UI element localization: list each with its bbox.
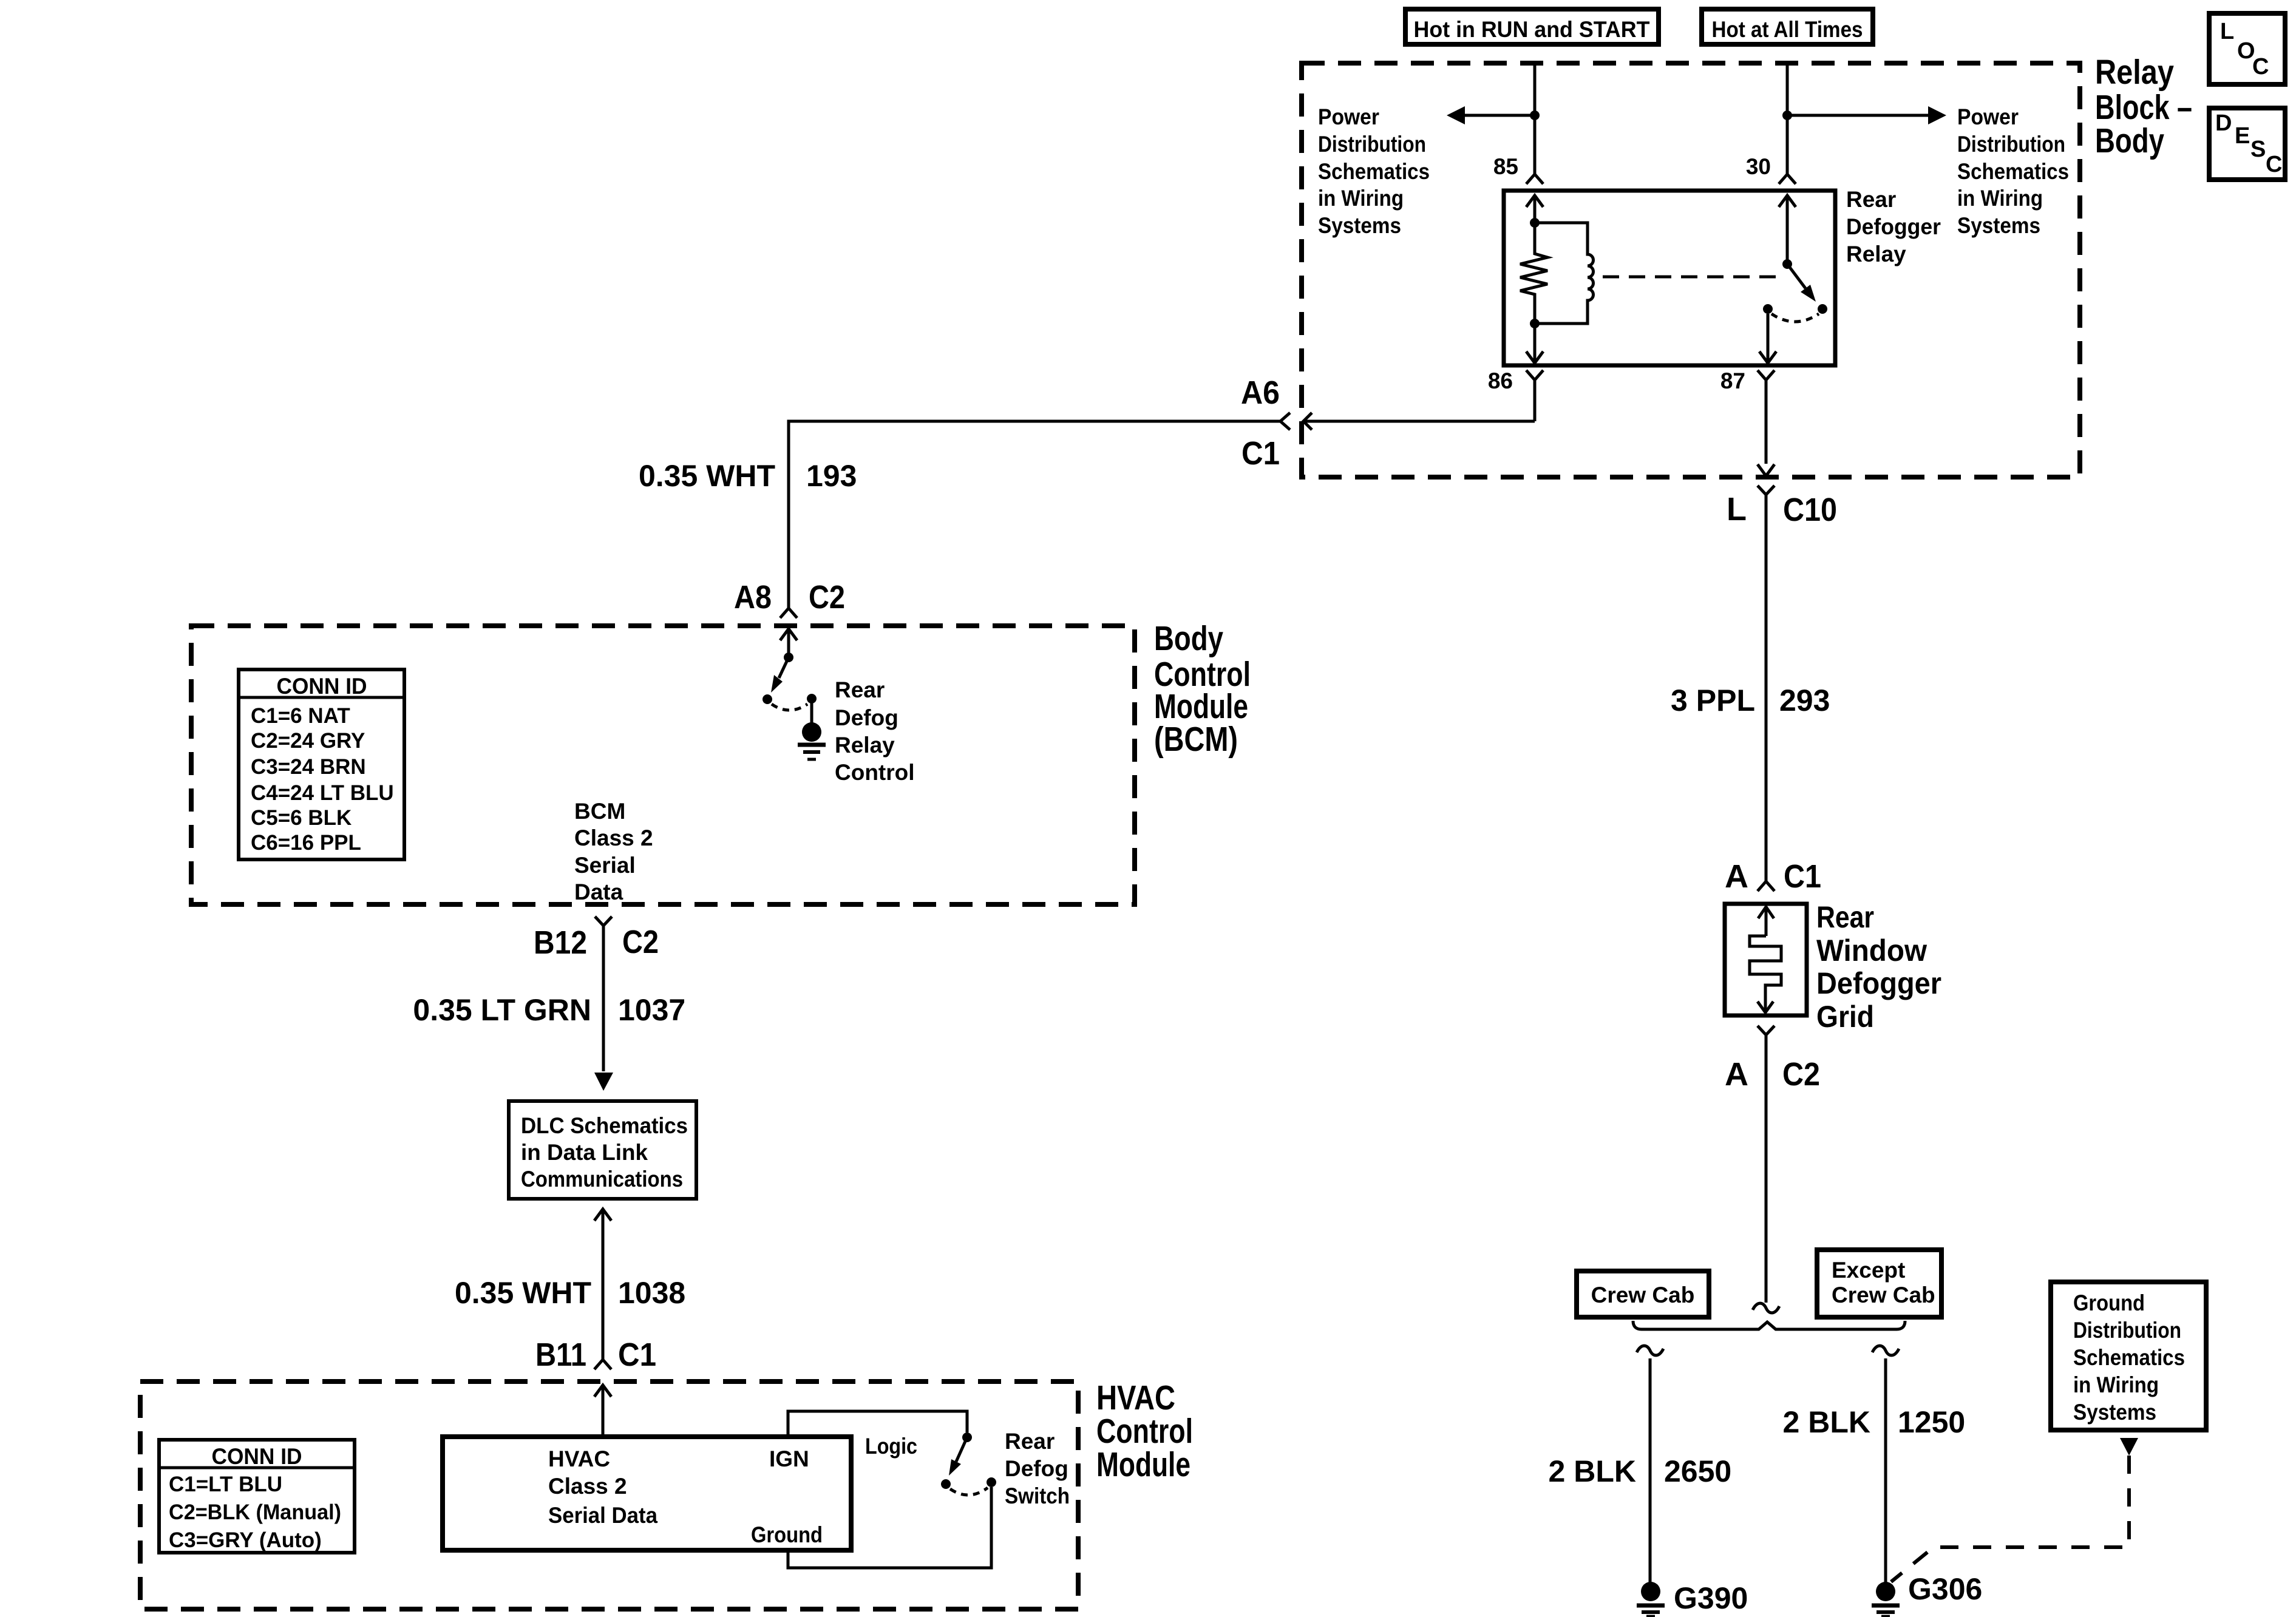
svg-text:0.35 WHT: 0.35 WHT	[455, 1276, 591, 1310]
wire to right power distribution	[1787, 114, 1939, 117]
svg-text:C2: C2	[809, 579, 845, 615]
logic wire to rear defog switch	[788, 1411, 967, 1437]
svg-text:Systems: Systems	[1318, 213, 1401, 238]
wire to G306 (circuit 1250)	[1884, 1358, 1887, 1583]
svg-text:87: 87	[1720, 368, 1745, 393]
wire break squiggle at splice	[1753, 1303, 1779, 1313]
wire to left power distribution	[1454, 114, 1535, 117]
wire from Hot at All Times to pin 30	[1786, 63, 1789, 174]
svg-text:Defogger: Defogger	[1816, 966, 1941, 1000]
DLC Schematics box	[509, 1101, 696, 1199]
svg-text:Power: Power	[1957, 104, 2019, 129]
svg-text:Module: Module	[1096, 1445, 1190, 1484]
option split brace	[1633, 1321, 1905, 1329]
CONN ID table (BCM)	[239, 670, 404, 859]
arrow up into DLC from HVAC wire 1038	[594, 1209, 611, 1360]
svg-text:C: C	[2252, 54, 2269, 80]
svg-text:C2: C2	[622, 924, 659, 960]
svg-text:C2=24 GRY: C2=24 GRY	[251, 729, 365, 753]
svg-text:IGN: IGN	[769, 1446, 809, 1471]
svg-text:Hot at All Times: Hot at All Times	[1712, 17, 1863, 42]
connector half (male) A/C2 and wire to splice	[1758, 1026, 1775, 1303]
Ground Distribution Schematics box	[2051, 1282, 2206, 1430]
svg-text:G306: G306	[1908, 1572, 1982, 1606]
svg-text:Rear: Rear	[1846, 187, 1896, 212]
rear defogger relay box	[1504, 191, 1835, 365]
svg-text:DLC Schematics: DLC Schematics	[521, 1113, 688, 1138]
relay switch pivot node	[1782, 259, 1792, 269]
svg-text:C: C	[2266, 152, 2282, 177]
Relay Block - Body dashed border	[1302, 63, 2080, 477]
svg-text:2 BLK: 2 BLK	[1549, 1454, 1636, 1488]
svg-text:Switch: Switch	[1005, 1483, 1070, 1508]
arrowhead below Ground Distribution box	[2120, 1438, 2138, 1456]
BCM driver switch blade	[779, 657, 789, 678]
CONN ID table (HVAC)	[159, 1440, 355, 1553]
svg-text:in Data Link: in Data Link	[521, 1140, 648, 1165]
ground return wire of switch	[788, 1487, 991, 1568]
svg-text:Schematics: Schematics	[1318, 159, 1430, 184]
svg-text:Rear: Rear	[1005, 1429, 1055, 1454]
svg-text:C10: C10	[1783, 492, 1837, 528]
svg-text:B12: B12	[534, 924, 587, 961]
connector half (female) B11/C1	[594, 1360, 611, 1369]
svg-text:86: 86	[1488, 368, 1513, 393]
BCM switch contact node right	[807, 694, 817, 703]
power feed label box "Hot in RUN and START"	[1405, 9, 1659, 44]
relay switch blade	[1787, 264, 1805, 288]
svg-text:C2=BLK (Manual): C2=BLK (Manual)	[169, 1500, 341, 1524]
svg-text:in Wiring: in Wiring	[1318, 186, 1404, 211]
svg-text:Logic: Logic	[865, 1434, 917, 1459]
wire segment left of A6 connector	[789, 421, 1280, 608]
grid entry arrow	[1758, 907, 1774, 936]
HVAC Control Module dashed border	[140, 1381, 1078, 1609]
connector half (female) at pin 85	[1526, 174, 1543, 184]
connector half (female) at pin 30	[1779, 174, 1796, 184]
svg-text:85: 85	[1493, 154, 1518, 179]
svg-text:Window: Window	[1816, 934, 1927, 968]
svg-text:30: 30	[1746, 154, 1771, 179]
svg-text:Defog: Defog	[1005, 1456, 1068, 1481]
svg-text:G390: G390	[1674, 1581, 1748, 1615]
svg-text:Ground: Ground	[751, 1522, 823, 1547]
inline connector female chevron at A6	[1280, 413, 1290, 430]
rear defog switch contact node left	[941, 1479, 951, 1489]
ground G306 symbol	[1872, 1582, 1900, 1616]
relay coil bottom node	[1530, 319, 1540, 328]
svg-text:1038: 1038	[618, 1276, 685, 1310]
arrowhead to left power distribution	[1447, 106, 1465, 124]
rear defog switch blade arrowhead	[949, 1459, 961, 1476]
power feed label box "Hot at All Times"	[1702, 9, 1873, 44]
svg-text:C2: C2	[1782, 1056, 1820, 1093]
svg-text:Body: Body	[1154, 619, 1223, 658]
BCM internal ground stem	[810, 699, 813, 724]
branch squiggle left (Crew Cab)	[1637, 1346, 1663, 1355]
svg-text:C4=24 LT BLU: C4=24 LT BLU	[251, 781, 394, 805]
rear defog switch blade	[956, 1437, 967, 1462]
relay actuation dashed link	[1603, 276, 1784, 279]
BCM input arrow from A8	[780, 629, 797, 654]
svg-text:Schematics: Schematics	[1957, 159, 2069, 184]
BCM driver switch blade arrowhead	[771, 675, 783, 693]
arrowhead into DLC box	[594, 1073, 613, 1091]
connector half (male) L/C10 and wire 293	[1758, 486, 1775, 881]
HVAC input arrow from B11	[594, 1385, 611, 1437]
svg-text:3 PPL: 3 PPL	[1671, 683, 1755, 717]
svg-text:A6: A6	[1241, 375, 1280, 411]
BCM switch dashed travel arc	[772, 704, 807, 710]
BCM switch contact node left	[763, 694, 772, 704]
svg-text:A: A	[1725, 858, 1748, 895]
svg-text:0.35 LT GRN: 0.35 LT GRN	[413, 993, 591, 1027]
inline connector arrowhead at A6	[1303, 413, 1312, 430]
svg-text:Relay: Relay	[1846, 242, 1906, 266]
svg-text:Serial Data: Serial Data	[548, 1503, 657, 1528]
svg-text:B11: B11	[535, 1337, 586, 1373]
junction node on wire 30	[1782, 110, 1792, 120]
svg-text:Distribution: Distribution	[1957, 132, 2065, 157]
svg-text:Body: Body	[2095, 121, 2164, 160]
grid exit arrow	[1758, 998, 1773, 1012]
defogger grid element	[1750, 936, 1781, 998]
svg-text:2 BLK: 2 BLK	[1783, 1405, 1870, 1439]
svg-text:Systems: Systems	[2073, 1400, 2156, 1425]
svg-text:193: 193	[806, 459, 857, 493]
connector half (male) B12/C2 and wire 1037	[595, 917, 612, 1071]
svg-text:C1: C1	[1241, 435, 1280, 472]
svg-text:Hot in RUN and START: Hot in RUN and START	[1414, 17, 1650, 42]
relay coil top node	[1530, 218, 1540, 228]
relay pin 86 exit wire and arrow	[1526, 324, 1543, 363]
svg-text:C6=16 PPL: C6=16 PPL	[251, 831, 361, 855]
svg-text:HVAC: HVAC	[548, 1446, 610, 1471]
svg-text:A: A	[1725, 1056, 1748, 1093]
relay switch dashed travel arc	[1771, 314, 1819, 322]
svg-text:Systems: Systems	[1957, 213, 2040, 238]
svg-text:C1=LT BLU: C1=LT BLU	[169, 1473, 282, 1496]
wire from 86 to BCM (circuit 193)	[1303, 420, 1535, 423]
connector half (female) A8/C2	[780, 608, 797, 618]
svg-text:2650: 2650	[1664, 1454, 1731, 1488]
connector half (male) at pin 87 and wire to C10	[1758, 370, 1775, 476]
connector half (female) A/C1	[1758, 881, 1775, 891]
svg-text:0.35 WHT: 0.35 WHT	[639, 459, 775, 493]
rear window defogger grid box	[1725, 904, 1807, 1015]
connector half (male) at pin 86	[1526, 370, 1543, 421]
svg-text:Distribution: Distribution	[2073, 1318, 2181, 1343]
rear defog switch dashed travel arc	[950, 1488, 988, 1495]
rear defog switch pivot node	[962, 1432, 972, 1442]
svg-text:C5=6 BLK: C5=6 BLK	[251, 806, 352, 830]
svg-text:Grid: Grid	[1816, 1000, 1874, 1034]
svg-text:CONN ID: CONN ID	[277, 674, 367, 699]
BCM internal ground circle	[802, 722, 821, 742]
svg-text:in Wiring: in Wiring	[2073, 1372, 2159, 1397]
relay pin 85 entry arrow	[1526, 195, 1543, 223]
svg-text:Schematics: Schematics	[2073, 1345, 2185, 1370]
svg-text:Crew Cab: Crew Cab	[1591, 1283, 1695, 1307]
svg-text:S: S	[2250, 137, 2266, 162]
svg-text:L: L	[1727, 491, 1747, 527]
svg-text:Rear: Rear	[1816, 900, 1874, 934]
rear defog switch contact node right	[987, 1477, 996, 1487]
svg-text:Class 2: Class 2	[548, 1474, 627, 1499]
svg-text:D: D	[2215, 110, 2232, 136]
resistor (relay suppression)	[1520, 223, 1547, 324]
svg-text:E: E	[2235, 123, 2250, 149]
svg-text:in Wiring: in Wiring	[1957, 186, 2043, 211]
wire to G390 (circuit 2650)	[1649, 1358, 1652, 1583]
BCM internal ground bars	[798, 743, 826, 747]
svg-text:1250: 1250	[1898, 1405, 1965, 1439]
svg-text:C1: C1	[618, 1337, 656, 1373]
svg-text:A8: A8	[734, 579, 772, 615]
svg-text:Defogger: Defogger	[1846, 214, 1941, 239]
DESC reference box	[2209, 108, 2285, 180]
junction node on wire 85	[1530, 110, 1540, 120]
arrowhead to right power distribution	[1928, 106, 1946, 124]
LOC reference box	[2209, 13, 2285, 84]
svg-text:Distribution: Distribution	[1318, 132, 1426, 157]
svg-text:CONN ID: CONN ID	[212, 1444, 302, 1469]
option label box Crew Cab	[1577, 1271, 1709, 1317]
branch squiggle right (Except Crew Cab)	[1872, 1346, 1899, 1355]
dashed reference path to G306	[1891, 1456, 2129, 1582]
svg-text:(BCM): (BCM)	[1154, 720, 1238, 759]
svg-text:293: 293	[1779, 683, 1830, 717]
relay pin 87 exit wire and arrow	[1759, 314, 1776, 363]
svg-text:L: L	[2220, 19, 2234, 44]
wire from Hot in RUN and START to pin 85	[1533, 63, 1537, 174]
svg-text:Ground: Ground	[2073, 1290, 2145, 1315]
option label box Except Crew Cab	[1817, 1250, 1941, 1317]
svg-text:C1: C1	[1784, 858, 1821, 895]
ground G390 symbol	[1637, 1582, 1665, 1616]
BCM driver switch pivot node	[784, 653, 793, 662]
svg-text:C3=GRY (Auto): C3=GRY (Auto)	[169, 1528, 322, 1552]
svg-text:Relay: Relay	[2095, 53, 2174, 92]
relay pin 30 entry arrow and wire to switch	[1779, 195, 1796, 264]
svg-text:Power: Power	[1318, 104, 1379, 129]
relay coil winding	[1535, 223, 1594, 324]
svg-text:C1=6 NAT: C1=6 NAT	[251, 704, 350, 728]
relay switch rest contact node	[1818, 304, 1827, 314]
svg-text:C3=24 BRN: C3=24 BRN	[251, 755, 366, 779]
svg-text:1037: 1037	[618, 993, 685, 1027]
relay switch stationary contact node	[1763, 304, 1773, 314]
Body Control Module dashed border	[191, 626, 1135, 904]
svg-text:Communications: Communications	[521, 1167, 683, 1192]
HVAC logic box	[443, 1437, 851, 1550]
relay switch blade arrowhead	[1801, 285, 1816, 302]
